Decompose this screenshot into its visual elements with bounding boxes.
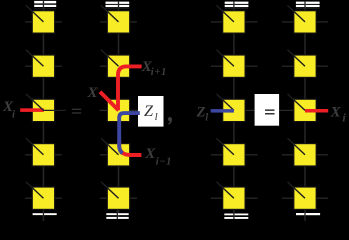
tensor A col3 row2 bbox=[216, 50, 245, 78]
svg-text:i+1: i+1 bbox=[151, 67, 167, 78]
svg-text:X: X bbox=[87, 85, 99, 101]
boundary bars col3 bottom bbox=[224, 214, 248, 219]
boundary bars col4 top bbox=[296, 2, 320, 8]
wire notch col4 over bars bbox=[304, 1, 306, 11]
tensor A col2 row3 (middle) bbox=[107, 99, 129, 121]
boundary bars col1 top bbox=[34, 1, 56, 7]
tensor A col2 row5 bbox=[101, 182, 130, 210]
wire: col3 horizontal stubs bbox=[211, 22, 258, 198]
wire: column 4 vertical bbox=[304, 2, 306, 221]
wire notch col1 over bars bbox=[42, 1, 44, 11]
wire: column 3 vertical bbox=[233, 2, 235, 219]
tensor A col1 row1 bbox=[26, 5, 55, 33]
boundary bars col2 bottom bbox=[106, 213, 128, 219]
operator X_i red line col1 bbox=[20, 108, 44, 112]
svg-text:l: l bbox=[205, 113, 208, 124]
boundary bars col2 top bbox=[106, 2, 130, 8]
tensor A col2 row2 bbox=[101, 50, 130, 78]
svg-text:i−1: i−1 bbox=[156, 157, 172, 168]
label X_{i+1} bbox=[141, 59, 167, 78]
svg-text:Z: Z bbox=[196, 104, 206, 120]
svg-text:l: l bbox=[155, 111, 158, 123]
tensor A col1 row5 bbox=[26, 182, 55, 210]
wire notch col2 over bars bbox=[118, 1, 120, 11]
tensor A col1 row4 bbox=[26, 138, 55, 166]
wire: column 2 vertical bbox=[118, 2, 120, 219]
white equals box between col3 and col4 bbox=[255, 94, 280, 126]
svg-text:X: X bbox=[144, 146, 156, 162]
wire stub from = box to col4 bbox=[279, 109, 293, 111]
wire: col2 horizontal stubs bbox=[100, 22, 139, 198]
wire: column 1 vertical bbox=[42, 1, 44, 221]
tensor A col2 row1 bbox=[101, 5, 130, 33]
tensor A col4 row1 bbox=[288, 5, 317, 33]
equals sign between col1 and col2 bbox=[72, 109, 81, 114]
tensor A col3 row5 bbox=[216, 182, 245, 210]
boundary bar col4 bottom bbox=[296, 213, 320, 215]
label X_{i-1} bbox=[144, 146, 172, 168]
tensor A col4 row3 (middle, X_i out) bbox=[288, 94, 317, 122]
comma after Z_l box bbox=[168, 117, 172, 124]
tensor A col3 row4 bbox=[216, 138, 245, 166]
label X_i (left) bbox=[2, 99, 16, 120]
label X_i (right) bbox=[330, 104, 347, 124]
tensor A col4 row5 bbox=[288, 182, 317, 210]
tensor A col1 row3 (middle, X_i applied) bbox=[32, 99, 54, 121]
tensor A col2 row4 bbox=[101, 138, 130, 166]
flag diagonal col1 row3 over red bbox=[26, 94, 66, 111]
svg-text:X: X bbox=[330, 104, 342, 120]
tensor A col4 row2 bbox=[288, 50, 317, 78]
operator X_i red line col4 bbox=[305, 109, 328, 113]
tensor A col1 row2 bbox=[26, 50, 55, 78]
red line to X_{i+1} bbox=[118, 66, 142, 110]
blue Z line through tensor bbox=[119, 113, 140, 153]
wire: col4 horizontal stubs bbox=[282, 22, 328, 198]
boundary bars col3 top bbox=[225, 2, 249, 8]
wire: col1 horizontal stubs bbox=[25, 22, 62, 198]
red line to X_{i-1} (under blue) bbox=[119, 140, 141, 155]
tensor A col3 row3 (middle, Z_l applied) bbox=[216, 94, 245, 122]
tensor A col4 row4 bbox=[288, 138, 317, 166]
operator Z_l blue line col3 bbox=[211, 109, 234, 113]
wire notch col3 over bars bbox=[233, 1, 235, 11]
label Z_l (left of col3) bbox=[196, 104, 209, 123]
equals sign in white box bbox=[265, 109, 275, 114]
red diagonal X on flag leg bbox=[100, 92, 119, 111]
boundary bar col1 bottom bbox=[33, 213, 57, 215]
tensor A col3 row1 bbox=[216, 5, 245, 33]
svg-text:Z: Z bbox=[144, 101, 154, 120]
white operator box Z_l bbox=[138, 96, 164, 127]
